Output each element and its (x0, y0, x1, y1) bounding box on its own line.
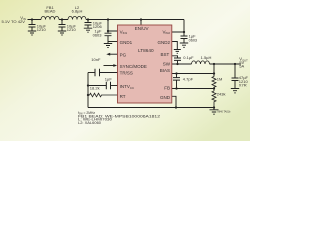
svg-text:LT8640: LT8640 (138, 48, 154, 53)
op-amp U1 LT8640 IC body (118, 25, 172, 103)
wire: TR/SS right (100, 72, 118, 74)
svg-text:SW: SW (163, 62, 171, 67)
svg-text:PG: PG (120, 52, 127, 57)
svg-text:10nF: 10nF (91, 57, 101, 62)
wire: INTVCC left (88, 85, 106, 87)
arrow PG output (106, 53, 110, 56)
svg-text:1.5µH: 1.5µH (201, 55, 212, 60)
capacitor C9 0.1uF BST (174, 58, 181, 64)
inductor L1 1.5uH (192, 61, 210, 64)
svg-text:6.8µH: 6.8µH (72, 9, 83, 14)
capacitor C8 1uF INTVCC (106, 82, 110, 90)
wire: IC GND pin drop (172, 96, 176, 107)
svg-text:1M: 1M (217, 76, 223, 81)
wire: EN/UV stem (140, 20, 142, 26)
wire: SW line (172, 63, 241, 65)
ground C3 (84, 28, 92, 32)
svg-text:4.7pF: 4.7pF (183, 77, 194, 82)
wire: VIN top rail (28, 19, 185, 21)
svg-text:1210: 1210 (67, 27, 77, 32)
ferrite bead FB1 (41, 16, 59, 19)
wire: left ground bus vertical (87, 73, 89, 108)
svg-text:GND: GND (160, 95, 171, 100)
wire: SYNC/MODE arrow line (104, 65, 114, 67)
svg-text:SYNC/MODE: SYNC/MODE (120, 64, 147, 69)
wire: FB (172, 88, 214, 90)
svg-text:8640 TA01b: 8640 TA01b (218, 111, 231, 114)
capacitor C11 47uF output (232, 64, 239, 89)
svg-text:5.1V TO 42V: 5.1V TO 42V (2, 20, 26, 24)
svg-text:18.2k: 18.2k (90, 85, 100, 90)
wire: VIN2 drop (172, 20, 184, 33)
svg-text:BST: BST (161, 52, 170, 57)
svg-text:GND1: GND1 (120, 40, 133, 45)
capacitor C3 10uF 1206 (85, 20, 92, 29)
inductor L2 (68, 16, 86, 19)
wire: INTVCC right (111, 85, 118, 87)
svg-text:BEAD: BEAD (45, 9, 56, 14)
svg-text:X7R: X7R (239, 83, 247, 88)
wire: GND2 (172, 42, 178, 50)
wire: GND1 to ground (108, 41, 118, 43)
ground C5 (180, 43, 188, 47)
svg-text:RT: RT (120, 94, 126, 99)
svg-text:1µF: 1µF (105, 76, 113, 81)
svg-text:243k: 243k (217, 91, 226, 96)
capacitor C1 10uF 1210 (29, 20, 36, 32)
svg-text:VIN1: VIN1 (120, 29, 128, 35)
capacitor C2 10uF 1210 (59, 20, 66, 32)
wire: BIAS (172, 73, 214, 75)
svg-text:0.1µF: 0.1µF (183, 55, 194, 60)
wire: BST (172, 56, 178, 58)
svg-text:GND2: GND2 (157, 40, 170, 45)
svg-text:0603: 0603 (189, 38, 197, 42)
svg-text:VIN2: VIN2 (162, 29, 170, 35)
ground GND1 (104, 44, 112, 48)
ground GND2 (174, 50, 181, 54)
wire: bottom ground rail (88, 107, 214, 109)
ground main (210, 108, 219, 115)
svg-text:FB: FB (164, 86, 170, 91)
svg-text:L2: XAL6060: L2: XAL6060 (78, 121, 101, 125)
arrow SYNC input (113, 64, 117, 67)
wire: TR/SS left (88, 72, 95, 74)
wire: divider top (213, 64, 215, 77)
resistor R1 18.2k (88, 93, 118, 97)
wire: PG arrow line (109, 53, 118, 55)
svg-text:BIAS: BIAS (160, 68, 170, 73)
svg-text:EN/UV: EN/UV (135, 26, 149, 31)
wire: VIN1 drop (108, 20, 118, 32)
svg-text:TR/SS: TR/SS (120, 70, 133, 75)
notes bottom left (78, 111, 160, 125)
resistor R3 243k (212, 91, 216, 108)
resistor R2 1M (212, 77, 216, 92)
svg-text:INTVCC: INTVCC (120, 84, 134, 90)
ground C1 (28, 31, 36, 35)
ground C11 (231, 89, 239, 93)
svg-text:0603: 0603 (93, 32, 103, 37)
ground C2 (58, 31, 66, 35)
capacitor C10 4.7pF (173, 74, 180, 89)
capacitor C5 1uF 0603 (181, 32, 188, 43)
junction dots (31, 18, 236, 108)
capacitor C4 1uF 0603 (105, 31, 112, 44)
svg-text:1210: 1210 (37, 27, 47, 32)
capacitor C7 10nF (95, 69, 100, 77)
svg-text:5A: 5A (239, 64, 244, 69)
